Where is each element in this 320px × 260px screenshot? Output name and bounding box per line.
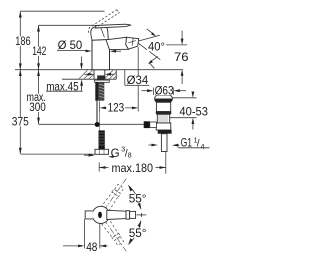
svg-text:G: G <box>111 146 120 160</box>
svg-text:48: 48 <box>86 240 97 254</box>
svg-text:Ø34: Ø34 <box>127 73 149 87</box>
svg-text:375: 375 <box>12 115 29 129</box>
svg-text:8: 8 <box>128 152 132 159</box>
svg-text:300: 300 <box>29 100 46 114</box>
svg-text:40-53: 40-53 <box>179 104 208 118</box>
svg-text:/: / <box>197 139 200 150</box>
svg-text:G1: G1 <box>181 136 193 150</box>
svg-text:40°: 40° <box>148 40 165 54</box>
svg-text:Ø 50: Ø 50 <box>58 38 83 52</box>
svg-text:55°: 55° <box>129 192 147 206</box>
svg-text:123: 123 <box>108 101 125 115</box>
svg-text:142: 142 <box>32 44 46 58</box>
svg-text:max.180: max.180 <box>112 161 154 175</box>
svg-text:4: 4 <box>201 144 205 151</box>
svg-text:Ø63: Ø63 <box>155 84 174 98</box>
svg-text:max.45: max.45 <box>46 79 79 93</box>
svg-text:186: 186 <box>15 34 31 48</box>
svg-text:76: 76 <box>174 50 189 64</box>
svg-text:55°: 55° <box>129 226 147 240</box>
